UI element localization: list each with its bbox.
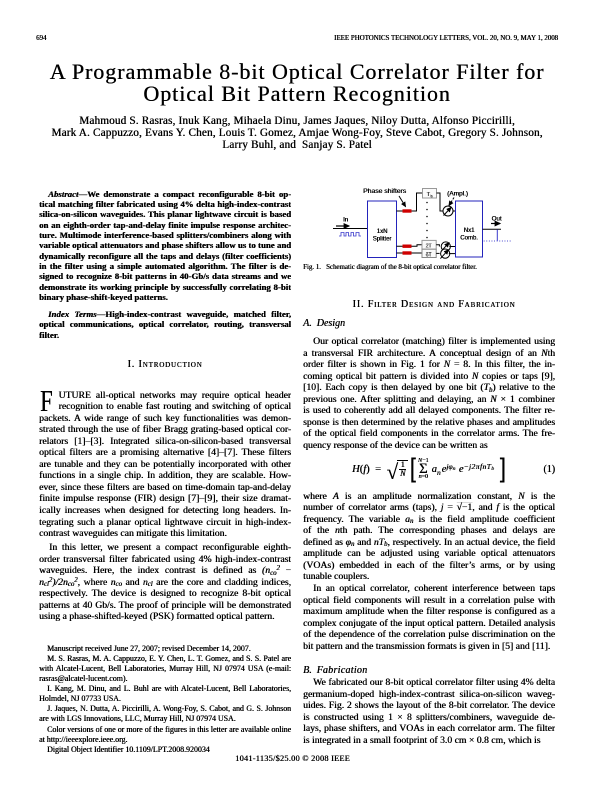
svg-text:Phase shifters: Phase shifters	[363, 188, 407, 195]
phase shifter PS2	[403, 245, 412, 248]
VOA A2	[441, 242, 456, 252]
wire arm1 out	[437, 193, 444, 211]
wire arm1	[397, 193, 423, 211]
equation (1)	[303, 454, 555, 485]
delay T_b	[423, 189, 437, 199]
input waveform	[339, 233, 361, 237]
svg-text:1xN: 1xN	[377, 229, 388, 235]
splitter U1: 1xN Splitter	[368, 201, 397, 258]
label: Phase shifters	[363, 188, 407, 207]
svg-text:In: In	[343, 218, 348, 224]
figure caption	[303, 264, 555, 272]
dots ellipsis	[426, 202, 428, 239]
issn footer	[0, 754, 585, 763]
authors	[0, 115, 594, 151]
intro paragraph 1	[39, 390, 291, 540]
label: (Ampl.)	[447, 191, 468, 206]
output pulse	[496, 230, 498, 241]
index terms	[39, 309, 291, 340]
abstract	[39, 189, 291, 303]
heading I	[39, 359, 291, 370]
where paragraph	[303, 491, 555, 583]
dropcap F	[40, 385, 53, 416]
svg-text:Splitter: Splitter	[373, 237, 392, 243]
node In	[336, 218, 349, 227]
svg-text:(Ampl.): (Ampl.)	[447, 191, 468, 198]
wire input	[333, 228, 368, 230]
wire arm N	[397, 252, 423, 254]
VOA A1	[443, 206, 453, 216]
correlator paragraph	[303, 583, 555, 652]
node Out	[491, 216, 502, 224]
combiner U2: Nx1 Comb.	[456, 201, 483, 257]
A. Design	[303, 318, 555, 329]
phase shifter PS3	[403, 251, 412, 254]
svg-text:Nx1: Nx1	[464, 228, 475, 234]
svg-text:Out: Out	[492, 216, 502, 223]
delay (N-1)Tb	[422, 249, 436, 258]
title	[0, 61, 594, 106]
figure 1: schematic of 8-bit optical correlator filter	[303, 178, 555, 262]
fabrication paragraph	[303, 677, 555, 746]
running header	[36, 35, 46, 42]
phase shifter PS1	[403, 209, 412, 212]
wire output	[483, 228, 502, 230]
wire arm N out	[436, 252, 439, 254]
design paragraph 1	[303, 336, 555, 451]
wire arm N-1 out	[436, 245, 439, 247]
svg-text:Comb.: Comb.	[460, 236, 478, 242]
footnotes	[39, 644, 291, 756]
VOA A3	[440, 249, 455, 259]
svg-text:δT: δT	[426, 252, 432, 258]
wire to combiner	[453, 210, 456, 212]
output baseline dotted	[484, 240, 512, 242]
B. Fabrication	[303, 665, 555, 676]
wire arm N-1	[397, 245, 423, 246]
delay (N-2)Tb	[422, 240, 436, 249]
heading II	[308, 299, 560, 310]
intro paragraph 2	[39, 542, 291, 623]
